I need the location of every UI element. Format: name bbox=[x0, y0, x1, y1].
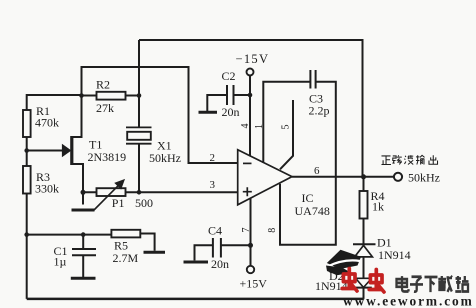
svg-text:+15V: +15V bbox=[240, 277, 268, 291]
svg-text:50kHz: 50kHz bbox=[149, 151, 181, 165]
svg-text:20n: 20n bbox=[222, 105, 240, 119]
svg-text:470k: 470k bbox=[35, 116, 59, 130]
svg-text:1k: 1k bbox=[372, 200, 384, 214]
svg-text:50kHz: 50kHz bbox=[408, 171, 440, 185]
svg-text:2.7M: 2.7M bbox=[113, 251, 139, 265]
svg-text:5: 5 bbox=[280, 125, 291, 130]
svg-text:500: 500 bbox=[135, 196, 153, 210]
svg-text:1N914: 1N914 bbox=[378, 248, 411, 262]
svg-text:C2: C2 bbox=[222, 69, 236, 83]
svg-text:P1: P1 bbox=[112, 196, 125, 210]
svg-text:1µ: 1µ bbox=[54, 255, 67, 269]
svg-text:2.2p: 2.2p bbox=[309, 104, 330, 118]
svg-text:4: 4 bbox=[240, 124, 251, 129]
svg-text:330k: 330k bbox=[35, 182, 59, 196]
svg-text:27k: 27k bbox=[96, 101, 114, 115]
svg-text:−15V: −15V bbox=[236, 52, 270, 66]
svg-text:1: 1 bbox=[254, 124, 265, 129]
svg-text:7: 7 bbox=[241, 228, 252, 233]
svg-text:www.eeworm.com: www.eeworm.com bbox=[343, 294, 474, 308]
svg-text:IC: IC bbox=[302, 191, 314, 205]
svg-text:3: 3 bbox=[210, 179, 216, 191]
svg-text:2N3819: 2N3819 bbox=[88, 150, 127, 164]
svg-text:20n: 20n bbox=[211, 257, 229, 271]
svg-text:8: 8 bbox=[267, 228, 278, 233]
svg-text:C4: C4 bbox=[208, 224, 222, 238]
svg-text:6: 6 bbox=[314, 165, 320, 177]
svg-text:UA748: UA748 bbox=[295, 204, 330, 218]
svg-text:2: 2 bbox=[210, 152, 216, 164]
svg-text:R2: R2 bbox=[96, 78, 110, 92]
